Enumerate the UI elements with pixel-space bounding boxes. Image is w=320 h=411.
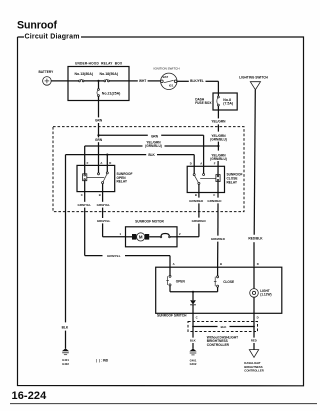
junction node fuse21 tap (97, 80, 99, 82)
svg-text:GRN: GRN (95, 119, 103, 123)
outer frame (18, 37, 304, 386)
svg-text:A: A (173, 262, 175, 266)
svg-text:WHT: WHT (139, 79, 146, 83)
svg-text:GRN: GRN (95, 138, 103, 142)
under-hood relay box (68, 67, 129, 101)
junction node option left (192, 326, 194, 328)
svg-text:BLK: BLK (190, 339, 196, 343)
svg-text:No.13(80A): No.13(80A) (75, 72, 94, 76)
svg-text:GRN/RED: GRN/RED (192, 219, 207, 223)
close pushbutton (214, 267, 234, 292)
wire GRN horizontal to close relay (99, 134, 204, 173)
svg-text:(1.12W): (1.12W) (260, 292, 271, 296)
svg-text:D: D (109, 161, 111, 165)
ignition switch (154, 66, 180, 89)
wire fuse13 to junction (84, 80, 104, 82)
junction node coil feed (217, 145, 219, 147)
svg-text:BLK: BLK (62, 325, 69, 329)
svg-text:GRN: GRN (151, 134, 159, 138)
svg-text:(GRN/BLU): (GRN/BLU) (145, 144, 162, 148)
svg-text:B: B (195, 193, 197, 197)
sunroof close relay U2 (187, 166, 242, 192)
svg-text:IG1: IG1 (169, 83, 174, 87)
svg-text:CLOSE: CLOSE (223, 280, 234, 284)
svg-text:A: A (200, 161, 202, 165)
wire BLK/YEL (177, 79, 219, 93)
svg-text:A: A (100, 161, 102, 165)
svg-text:F: F (87, 161, 89, 165)
junction node option right (253, 326, 255, 328)
wire into fuse 13 (68, 80, 79, 82)
svg-text:YEL/GRN: YEL/GRN (211, 120, 226, 124)
svg-text:BLK/YEL: BLK/YEL (190, 79, 204, 83)
svg-text:No.18(50A): No.18(50A) (100, 72, 119, 76)
svg-text:G402: G402 (62, 362, 69, 366)
svg-text:RED/BLK: RED/BLK (248, 236, 263, 240)
svg-text:RELAY: RELAY (227, 180, 238, 184)
dashed harness box (53, 127, 244, 212)
svg-text:OPEN: OPEN (176, 279, 186, 283)
wire BLK jumper in option box (193, 325, 254, 329)
dash fuse box (195, 93, 237, 110)
svg-text:GRN/YEL: GRN/YEL (97, 203, 111, 207)
page bottom rule (10, 403, 317, 405)
wire BLK ground bus (66, 153, 195, 174)
svg-text:B: B (220, 262, 222, 266)
wire RED/BLK from lighting switch down to sunroof switch lamp (248, 90, 263, 267)
diode D1 (190, 292, 196, 313)
wire to motor pin 1 (103, 236, 126, 238)
wire YEL/GRN (GRN/BLU) horizontal to open relay coil (85, 141, 219, 174)
svg-text:C: C (81, 193, 83, 197)
wire BLK left drop to ground (62, 155, 69, 349)
svg-text:GRN/YEL: GRN/YEL (97, 219, 111, 223)
ground G401 G402 (switch) (189, 348, 196, 366)
svg-text:B: B (99, 193, 101, 197)
wire GRN/RED close relay C down to switch (207, 193, 225, 268)
svg-text:IGNITION SWITCH: IGNITION SWITCH (154, 66, 180, 70)
svg-text:( ) : IND: ( ) : IND (96, 359, 109, 363)
svg-text:No.21(25A): No.21(25A) (102, 92, 121, 96)
junction node open relay D tap (106, 154, 108, 156)
battery B+ (39, 70, 55, 85)
open pushbutton (166, 267, 185, 292)
svg-text:C: C (196, 315, 198, 319)
svg-text:(GRN/BLU): (GRN/BLU) (210, 137, 227, 141)
wire GRN/RED close relay B down (189, 193, 206, 237)
open relay coil (83, 174, 87, 192)
lighting switch connector (239, 76, 268, 90)
sunroof motor M1 (126, 220, 178, 247)
svg-text:D: D (257, 262, 259, 266)
wire GRN/YEL open relay B down (97, 192, 111, 237)
svg-text:BAT: BAT (163, 75, 169, 79)
junction node GRN branch (97, 134, 99, 136)
open relay contact (87, 172, 108, 192)
svg-text:GRN/YEL: GRN/YEL (78, 203, 92, 207)
svg-text:M: M (139, 235, 143, 240)
svg-text:16-224: 16-224 (12, 390, 48, 402)
close relay contact (193, 174, 216, 193)
svg-text:1: 1 (120, 232, 122, 236)
svg-text:2: 2 (179, 232, 181, 236)
wire to motor pin 2 (177, 236, 199, 238)
svg-text:(GRN/BLU): (GRN/BLU) (210, 157, 227, 161)
svg-text:GRN/RED: GRN/RED (207, 199, 222, 203)
sunroof open relay U1 (77, 165, 132, 191)
close relay coil (216, 175, 220, 193)
wire GRN/YEL open relay C down (78, 192, 92, 256)
wire YEL/GRN from dash fuse down (210, 110, 227, 151)
wire open relay D drop (106, 155, 108, 173)
wire switch common (170, 291, 218, 293)
lamp LIGHT 1.12W (250, 267, 272, 313)
svg-text:LIGHTING SWITCH: LIGHTING SWITCH (239, 76, 268, 80)
svg-text:FUSE BOX: FUSE BOX (195, 101, 212, 105)
svg-text:GRN/RED: GRN/RED (189, 199, 204, 203)
sunroof switch S1 (156, 267, 282, 317)
svg-text:C: C (213, 193, 215, 197)
svg-text:D: D (190, 161, 192, 165)
fuse No.18 (50A) (100, 72, 119, 82)
wire RED to dashlight brightness controller (251, 313, 257, 350)
svg-text:BATTERY: BATTERY (39, 70, 55, 74)
wire battery to under-hood relay box (51, 80, 68, 82)
svg-text:F: F (214, 161, 216, 165)
wire GRN/YEL horizontal to switch A (85, 254, 170, 267)
fuse No.8 (7.5A) (217, 93, 233, 110)
junction node switch common (192, 291, 194, 293)
svg-text:Circuit Diagram: Circuit Diagram (25, 33, 80, 40)
svg-text:BLK: BLK (221, 325, 227, 329)
svg-text:CONTROLLER: CONTROLLER (207, 343, 230, 347)
ground G401 G402 (left) (62, 348, 69, 366)
svg-text:(7.5A): (7.5A) (223, 102, 233, 106)
wire fuse18 to box edge (109, 80, 129, 82)
wire YEL/GRN (GRN/BLU) vertical to close relay coil (210, 154, 227, 175)
fuse No.13 (80A) (75, 72, 94, 82)
svg-text:GRN/YEL: GRN/YEL (107, 254, 121, 258)
svg-text:G402: G402 (190, 362, 197, 366)
svg-text:BLK: BLK (148, 153, 155, 157)
svg-text:GRN/RED: GRN/RED (211, 237, 226, 241)
wire GRN from fuse21 down (95, 101, 103, 174)
svg-text:SUNROOF MOTOR: SUNROOF MOTOR (135, 220, 164, 224)
svg-text:CONTROLLER: CONTROLLER (244, 368, 263, 372)
dashed option box without dashlight brightness controller (188, 322, 258, 347)
svg-text:Sunroof: Sunroof (17, 19, 57, 31)
svg-text:RELAY: RELAY (117, 180, 128, 184)
svg-text:SUNROOF SWITCH: SUNROOF SWITCH (157, 313, 187, 317)
fuse No.21 (25A) vertical (97, 81, 120, 101)
wire WHT (129, 79, 161, 83)
wire BLK switch C to ground (190, 313, 196, 349)
connector arrow dashlight brightness controller (244, 350, 263, 373)
svg-text:RED: RED (251, 339, 257, 343)
svg-text:UNDER-HOOD RELAY BOX: UNDER-HOOD RELAY BOX (75, 61, 123, 65)
svg-text:D: D (257, 316, 259, 320)
